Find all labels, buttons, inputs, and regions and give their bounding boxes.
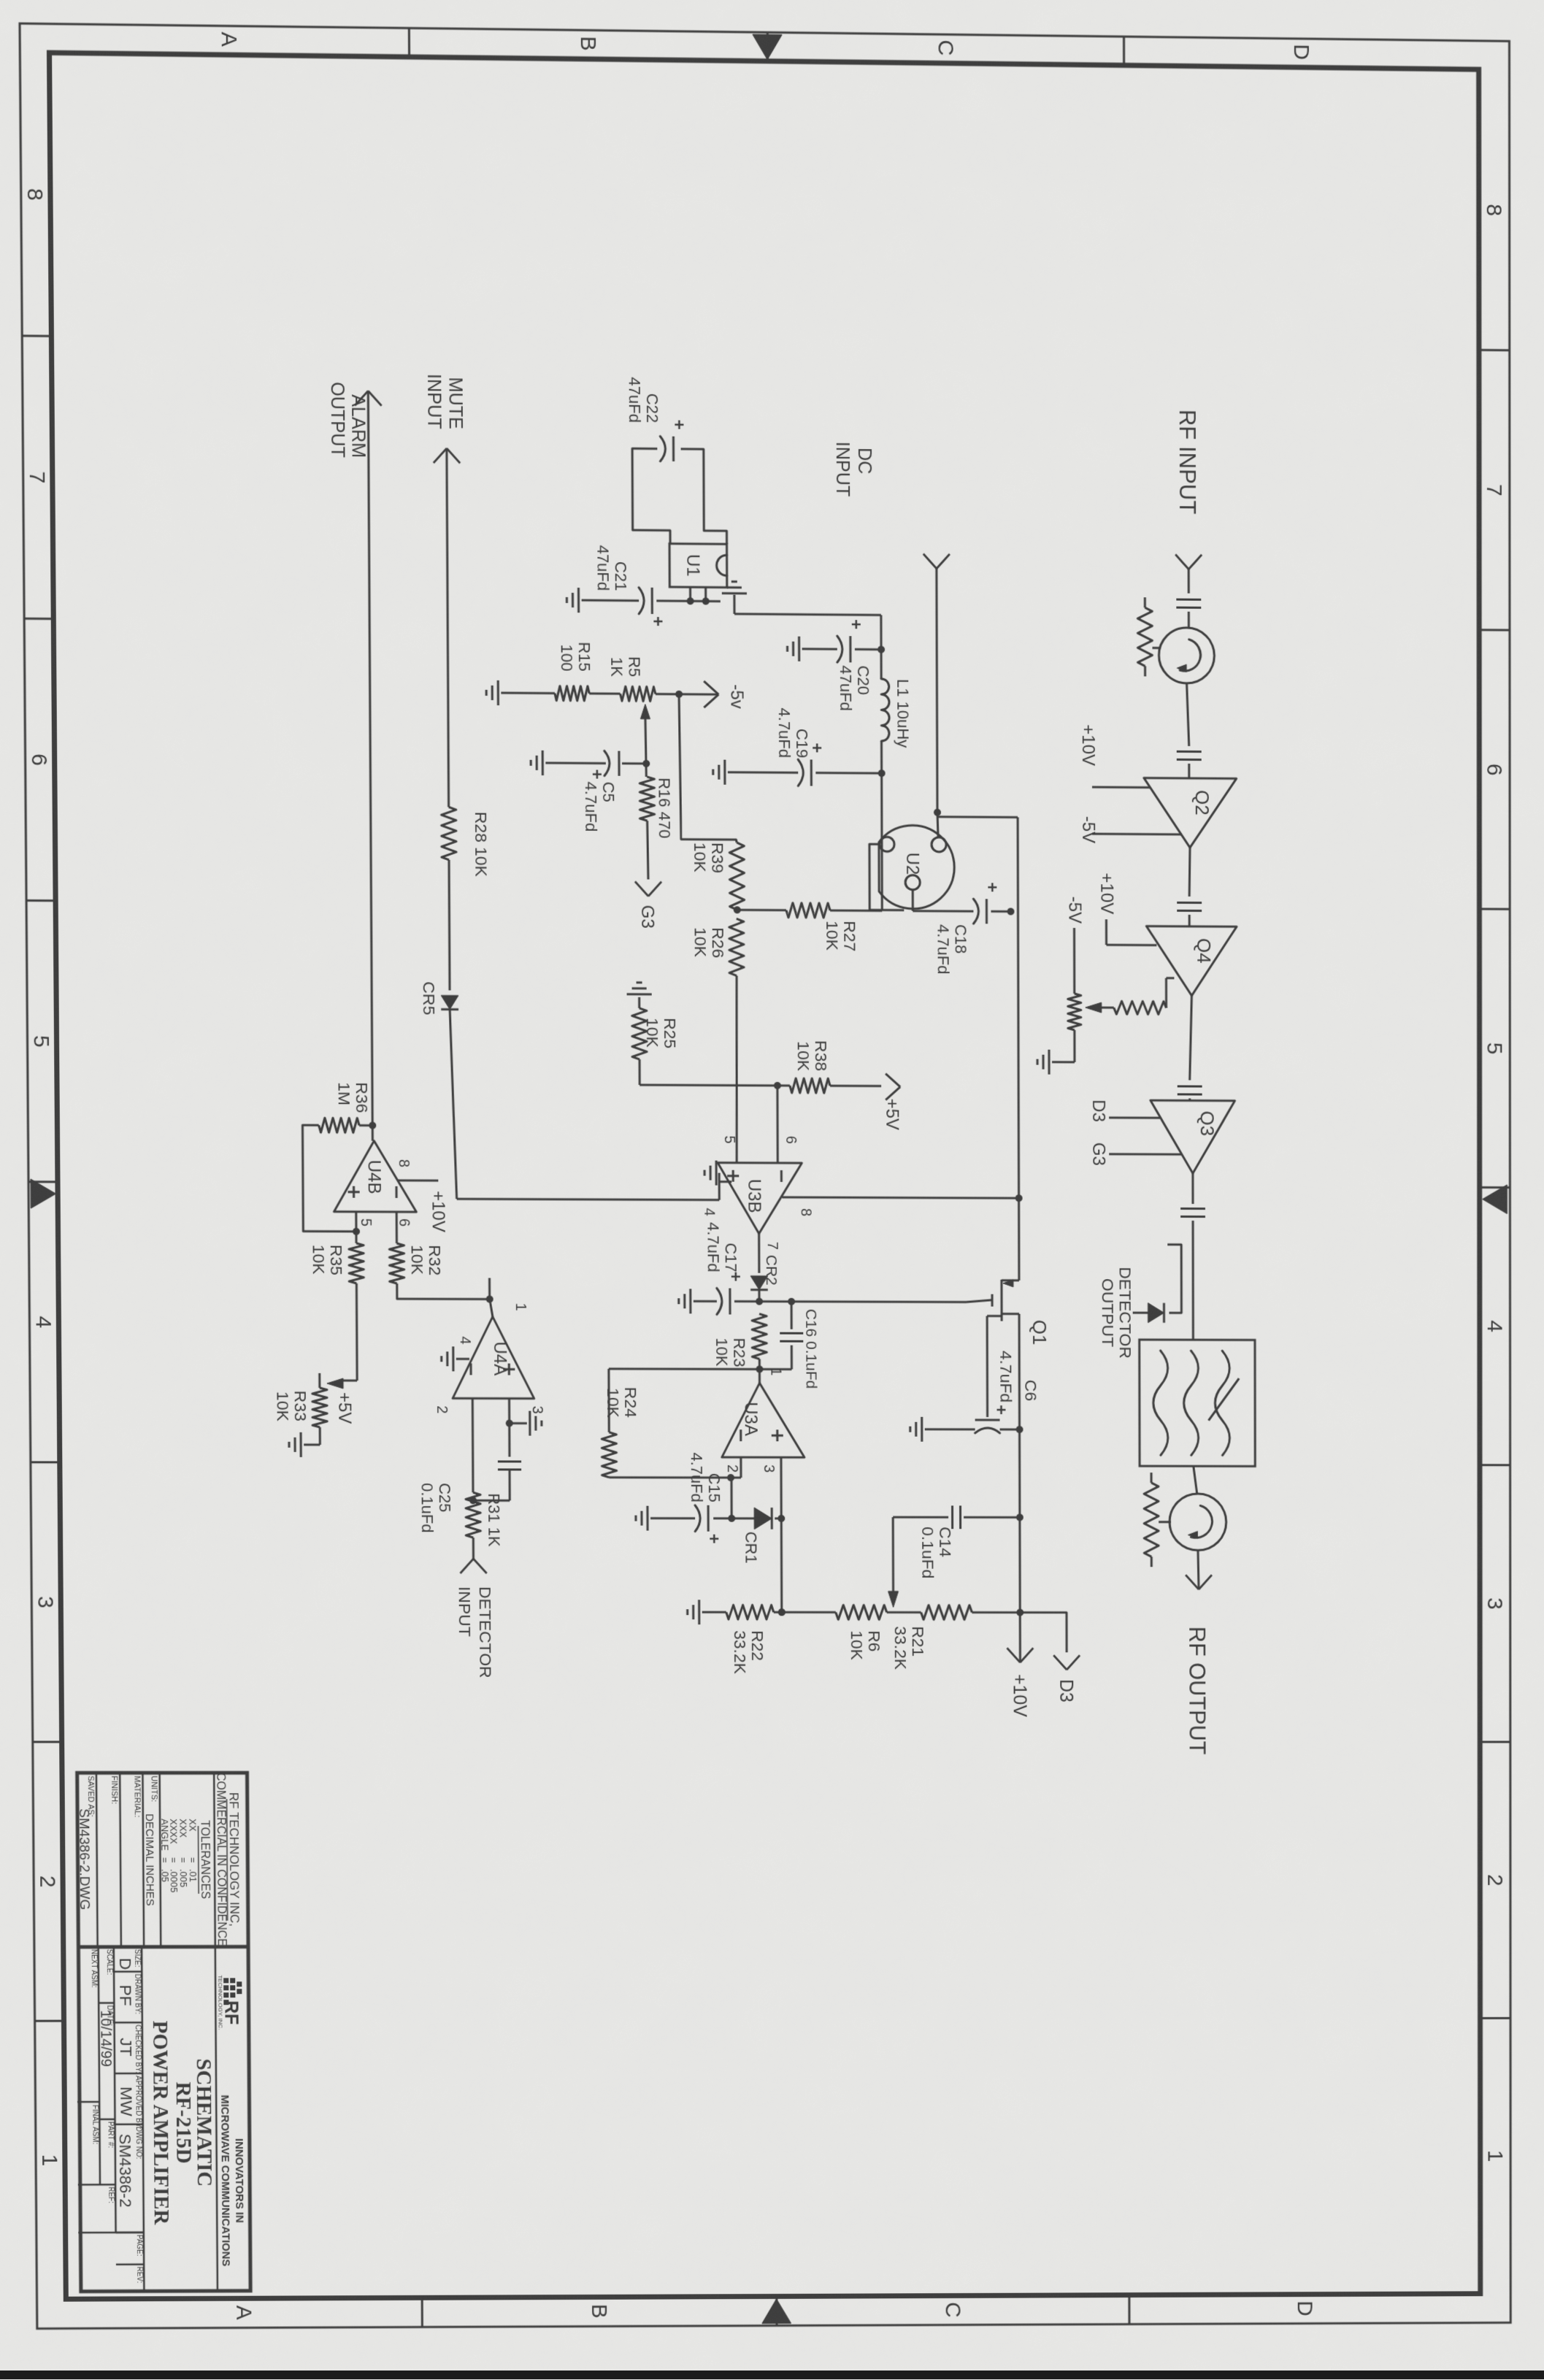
svg-text:5: 5	[29, 1035, 53, 1048]
svg-text:R24: R24	[621, 1387, 640, 1418]
ground below C19	[723, 760, 726, 785]
alarm output arrow	[368, 391, 381, 405]
svg-text:4: 4	[31, 1316, 55, 1329]
svg-text:3: 3	[33, 1596, 57, 1608]
svg-text:10K: 10K	[273, 1391, 292, 1422]
svg-text:10K: 10K	[604, 1388, 623, 1418]
svg-text:A: A	[217, 31, 241, 47]
feedback wire to U3A output node	[607, 1369, 610, 1432]
svg-text:OUTPUT: OUTPUT	[327, 382, 348, 458]
svg-text:C: C	[941, 2302, 965, 2318]
svg-text:-5V: -5V	[1078, 816, 1098, 844]
svg-text:C25: C25	[436, 1483, 454, 1512]
svg-text:7: 7	[1482, 484, 1506, 496]
DC riser to +10V rail	[938, 815, 1018, 818]
U2 lower pin loop	[869, 844, 904, 910]
svg-text:+10V: +10V	[1078, 724, 1098, 766]
svg-text:+5V: +5V	[334, 1392, 354, 1424]
svg-text:D3: D3	[1056, 1679, 1076, 1703]
CR1 bus vertical	[775, 1517, 781, 1519]
svg-text:+10V: +10V	[1010, 1674, 1030, 1717]
U4A output wire	[490, 1300, 493, 1317]
svg-text:DETECTOR: DETECTOR	[1116, 1267, 1135, 1359]
feedback junction on output	[369, 1122, 376, 1129]
svg-text:D3: D3	[1088, 1099, 1108, 1122]
filter slash	[1208, 1378, 1239, 1421]
alarm output wire	[368, 391, 372, 1140]
resistor R26	[729, 918, 744, 975]
directional coupler line	[1167, 1245, 1181, 1313]
U3B output wire	[758, 1234, 760, 1273]
svg-text:MW: MW	[117, 2087, 136, 2116]
wire R32 to U4A output	[397, 1283, 490, 1299]
resistor R32	[389, 1243, 404, 1283]
svg-text:MATERIAL:: MATERIAL:	[132, 1776, 141, 1817]
circulator 2	[1169, 1494, 1226, 1551]
svg-text:D: D	[1289, 44, 1313, 60]
R5 wiper arrow and line	[640, 705, 650, 719]
svg-text:RF INPUT: RF INPUT	[1175, 410, 1200, 515]
svg-text:10K: 10K	[310, 1245, 329, 1275]
svg-text:DWG NO:: DWG NO:	[134, 2127, 142, 2160]
capacitor C5	[642, 760, 650, 767]
U1 right pins to bus	[704, 587, 707, 601]
potentiometer R33	[312, 1388, 327, 1427]
capacitor C-in4	[1178, 1085, 1202, 1087]
transistor U2 (can)	[879, 825, 955, 909]
svg-text:R5: R5	[625, 656, 643, 677]
svg-text:D: D	[116, 1958, 135, 1970]
voltage regulator U1	[669, 544, 727, 588]
resistor R39	[729, 842, 744, 910]
svg-text:4.7uFd: 4.7uFd	[775, 707, 794, 758]
ground left of R25	[638, 997, 640, 1008]
wire to G3 arrow	[648, 821, 648, 879]
svg-text:8: 8	[798, 1208, 814, 1216]
svg-text:6: 6	[396, 1218, 412, 1227]
svg-text:R21: R21	[909, 1626, 928, 1657]
svg-text:2: 2	[434, 1405, 450, 1413]
wire	[589, 692, 620, 694]
svg-text:REF:: REF:	[107, 2187, 115, 2203]
svg-text:47uFd: 47uFd	[837, 665, 855, 711]
wire	[1192, 1221, 1194, 1340]
mute wire	[447, 448, 449, 807]
ground at Q4 pot	[1048, 1050, 1050, 1075]
svg-text:2: 2	[1483, 1874, 1506, 1886]
svg-text:6: 6	[1482, 764, 1506, 776]
svg-text:5: 5	[1483, 1043, 1507, 1055]
ground below C21	[577, 588, 580, 613]
diode CR2	[750, 1276, 768, 1290]
centering marks	[1483, 1185, 1507, 1214]
svg-text:L1 10uHy: L1 10uHy	[894, 679, 912, 748]
RF logo	[230, 1978, 235, 1983]
svg-text:4: 4	[1483, 1320, 1507, 1332]
diode CR1	[754, 1508, 772, 1529]
svg-text:.01: .01	[188, 1869, 199, 1882]
+5V arrow above R38	[830, 1085, 881, 1087]
svg-text:10K: 10K	[691, 842, 710, 873]
svg-text:=: =	[188, 1857, 199, 1863]
svg-text:UNITS:: UNITS:	[150, 1776, 158, 1802]
svg-text:8: 8	[1482, 204, 1506, 216]
svg-text:10K: 10K	[823, 921, 842, 951]
wire to ground	[501, 692, 555, 695]
svg-text:4.7uFd: 4.7uFd	[996, 1351, 1015, 1402]
svg-text:U3B: U3B	[744, 1179, 764, 1213]
capacitor C25	[498, 1460, 521, 1462]
svg-text:R31 1K: R31 1K	[485, 1493, 503, 1546]
wire	[1194, 1466, 1197, 1494]
svg-text:G3: G3	[637, 905, 657, 929]
R24 feedback leg	[610, 1476, 731, 1478]
svg-text:3: 3	[529, 1406, 545, 1414]
capacitor C-out1	[1180, 1208, 1205, 1210]
resistor R22	[726, 1605, 774, 1619]
D3 arrow and label	[1067, 1655, 1080, 1670]
svg-text:2: 2	[35, 1876, 59, 1888]
svg-text:4: 4	[457, 1336, 473, 1344]
wire	[1189, 996, 1191, 1080]
svg-text:TECHNOLOGY, INC.: TECHNOLOGY, INC.	[217, 1975, 223, 2030]
svg-text:10K: 10K	[848, 1630, 867, 1660]
svg-text:C6: C6	[1021, 1380, 1040, 1401]
svg-text:10K: 10K	[713, 1337, 731, 1366]
svg-text:R32: R32	[426, 1245, 445, 1275]
svg-text:1: 1	[37, 2154, 61, 2167]
op-amp U3A (points left)	[721, 1383, 804, 1457]
svg-text:G3: G3	[1088, 1143, 1108, 1166]
svg-text:2: 2	[724, 1465, 740, 1473]
svg-text:SM4386-2: SM4386-2	[116, 2134, 135, 2208]
wire	[1187, 683, 1189, 746]
svg-text:POWER AMPLIFIER: POWER AMPLIFIER	[148, 2021, 173, 2226]
svg-text:C19: C19	[793, 729, 811, 759]
resistor R31	[466, 1492, 480, 1538]
C6 network	[986, 1316, 988, 1417]
svg-text:R38: R38	[812, 1040, 831, 1071]
svg-text:0.1uFd: 0.1uFd	[418, 1483, 437, 1532]
wiper arrow onto R6	[888, 1592, 899, 1608]
svg-text:C16 0.1uFd: C16 0.1uFd	[802, 1309, 819, 1389]
svg-text:C5: C5	[599, 782, 618, 802]
resistor R35	[349, 1243, 364, 1283]
capacitor C15	[707, 1505, 710, 1532]
op-amp U4B (points left)	[334, 1140, 416, 1212]
svg-text:1K: 1K	[607, 657, 626, 677]
svg-text:100: 100	[558, 645, 576, 672]
junction to D3 stub	[1016, 1609, 1023, 1616]
svg-text:INPUT: INPUT	[456, 1586, 475, 1637]
svg-text:Q2: Q2	[1191, 790, 1213, 815]
capacitor C-in2	[1177, 751, 1202, 753]
filter box	[1140, 1340, 1256, 1466]
svg-text:R6: R6	[865, 1630, 884, 1651]
svg-text:C14: C14	[936, 1527, 955, 1557]
svg-text:4.7uFd: 4.7uFd	[934, 924, 952, 975]
potentiometer at Q4	[1068, 994, 1081, 1030]
svg-text:4: 4	[701, 1208, 717, 1216]
amplifier Q4	[1146, 926, 1237, 997]
junction for C6 ground leg	[1016, 1426, 1023, 1433]
svg-text:10K: 10K	[643, 1018, 662, 1048]
U3B - input line	[776, 1086, 778, 1163]
svg-text:MICROWAVE COMMUNICATIONS: MICROWAVE COMMUNICATIONS	[218, 2095, 232, 2266]
svg-text:RF TECHNOLOGY INC,: RF TECHNOLOGY INC,	[226, 1792, 241, 1927]
potentiometer R5	[621, 686, 656, 701]
wire A right	[880, 741, 883, 910]
U3B pin4 ground + CR5 net riser	[719, 1181, 731, 1183]
svg-text:=: =	[178, 1857, 189, 1863]
svg-text:8: 8	[23, 188, 47, 201]
wire	[1188, 569, 1190, 594]
U4A pin4 ground	[469, 1362, 472, 1364]
svg-text:PART #:: PART #:	[106, 2122, 114, 2148]
svg-text:C18: C18	[952, 924, 970, 953]
riser to left ground	[734, 614, 881, 615]
wire A	[880, 615, 882, 678]
wire to R33 wiper	[356, 1283, 358, 1381]
junction C16 return	[756, 1365, 763, 1373]
resistor R15	[555, 686, 589, 701]
svg-text:6: 6	[27, 753, 51, 766]
svg-text:B: B	[587, 2304, 611, 2319]
svg-text:RF OUTPUT: RF OUTPUT	[1184, 1627, 1210, 1755]
svg-text:C: C	[934, 39, 958, 55]
detector diode CR-det	[1148, 1303, 1164, 1323]
svg-text:1: 1	[767, 1367, 783, 1375]
title block left rows	[214, 1773, 215, 1946]
svg-text:10/14/99: 10/14/99	[97, 2010, 114, 2067]
svg-text:XXX: XXX	[177, 1819, 188, 1838]
R21 top wire	[972, 1611, 1020, 1613]
U1 pin bus with C21 to ground	[656, 599, 721, 602]
U4A - input line	[472, 1398, 475, 1492]
capacitor C21	[651, 588, 653, 614]
title block outline	[77, 1773, 250, 2291]
resistor R36 feedback	[359, 1124, 372, 1126]
U4B + input line	[355, 1212, 357, 1243]
U4B - input line	[396, 1212, 398, 1243]
svg-text:JT: JT	[117, 2038, 136, 2056]
wire to detector input arrow	[472, 1538, 475, 1559]
svg-text:+10V: +10V	[1096, 873, 1116, 915]
svg-text:U1: U1	[683, 554, 702, 577]
inductor L1	[881, 679, 889, 741]
svg-text:OUTPUT: OUTPUT	[1099, 1278, 1118, 1347]
+10V drain rail	[1018, 817, 1019, 1280]
svg-text:Q4: Q4	[1193, 938, 1215, 964]
RF output arrow	[1199, 1575, 1212, 1589]
svg-text:47uFd: 47uFd	[626, 377, 644, 423]
svg-text:R33: R33	[291, 1391, 310, 1421]
ground below C6	[921, 1417, 923, 1442]
svg-text:-5v: -5v	[726, 684, 746, 709]
U4B pin8 +10V stub	[398, 1179, 438, 1181]
ground right of R33	[319, 1427, 321, 1445]
C20 branch	[855, 648, 881, 650]
svg-text:Q1: Q1	[1029, 1320, 1051, 1346]
junction R39/R26	[734, 906, 741, 913]
svg-text:0.1uFd: 0.1uFd	[918, 1527, 937, 1578]
C22 loop around U1	[681, 449, 727, 544]
Q4 gate resistor with wiper arrow	[1166, 977, 1174, 979]
svg-text:INPUT: INPUT	[832, 442, 853, 497]
transistor Q1 (JFET)	[1000, 1280, 1002, 1321]
wire	[1191, 1173, 1194, 1204]
R25 to - input	[640, 1084, 777, 1087]
svg-text:CR1: CR1	[742, 1532, 760, 1564]
wire	[448, 860, 451, 991]
resistor R28	[442, 807, 457, 859]
junction U3A+ tap	[778, 1608, 786, 1616]
svg-text:DC: DC	[854, 448, 875, 475]
svg-text:=: =	[159, 1857, 170, 1863]
svg-text:COMMERCIAL IN CONFIDENCE: COMMERCIAL IN CONFIDENCE	[214, 1773, 228, 1946]
resistor R23	[752, 1314, 767, 1359]
svg-text:1: 1	[512, 1302, 529, 1310]
capacitor C22	[672, 437, 675, 461]
svg-text:INPUT: INPUT	[423, 374, 445, 429]
ground below C17	[689, 1289, 691, 1313]
wire	[1188, 1098, 1191, 1100]
capacitor C-in1	[1176, 599, 1201, 601]
svg-text:CR5: CR5	[420, 981, 439, 1015]
svg-text:4.7uFd: 4.7uFd	[582, 781, 600, 832]
svg-text:C21: C21	[612, 561, 630, 591]
svg-text:R25: R25	[661, 1018, 680, 1048]
svg-text:7: 7	[764, 1242, 780, 1250]
wire	[887, 1611, 921, 1613]
+ line jog down to -5v chain	[679, 694, 737, 842]
svg-text:3: 3	[1483, 1597, 1506, 1610]
inverted ground above + line	[510, 1422, 527, 1424]
junction rail to C14 branch	[1016, 1513, 1023, 1521]
wire	[656, 693, 718, 696]
svg-text:33.2K: 33.2K	[731, 1630, 750, 1674]
svg-text:8: 8	[396, 1159, 412, 1167]
svg-text:ANGLE: ANGLE	[159, 1819, 170, 1851]
C16 parallel branch	[788, 1298, 795, 1305]
ground below C20	[798, 637, 800, 661]
svg-text:U2: U2	[902, 853, 922, 875]
svg-text:R36: R36	[353, 1082, 372, 1113]
capacitor C-in3	[1177, 902, 1202, 904]
zone ticks and labels	[1479, 349, 1510, 351]
svg-text:DECIMAL INCHES: DECIMAL INCHES	[143, 1813, 156, 1906]
svg-text:CR2: CR2	[763, 1255, 780, 1286]
svg-text:SM4386-2.DWG: SM4386-2.DWG	[76, 1808, 92, 1910]
svg-text:+10V: +10V	[428, 1191, 448, 1232]
svg-text:4.7uFd: 4.7uFd	[704, 1222, 722, 1272]
wire to ground	[702, 1611, 726, 1613]
svg-text:7: 7	[25, 471, 49, 483]
svg-text:1M: 1M	[335, 1082, 354, 1105]
svg-text:DETECTOR: DETECTOR	[476, 1586, 496, 1678]
svg-text:+5V: +5V	[882, 1099, 902, 1130]
op-amp U3B	[718, 1163, 802, 1234]
DC input arrow and wire	[937, 554, 950, 569]
svg-text:33.2K: 33.2K	[891, 1626, 910, 1670]
wire	[1189, 848, 1190, 897]
svg-text:U4B: U4B	[364, 1160, 383, 1194]
svg-text:Q3: Q3	[1197, 1110, 1218, 1136]
svg-text:RF: RF	[220, 2000, 241, 2024]
capacitor C18	[986, 899, 988, 924]
row A cell dividers	[114, 1970, 142, 1973]
+10V arrow and label	[1020, 1648, 1033, 1662]
wire to U3B pin4 area	[450, 1010, 456, 1199]
svg-text:R27: R27	[840, 921, 859, 951]
capacitor C17 on gate bus	[734, 1300, 759, 1302]
svg-text:3: 3	[761, 1465, 777, 1473]
svg-text:R16 470: R16 470	[655, 778, 673, 839]
svg-text:R22: R22	[748, 1630, 767, 1661]
svg-text:R15: R15	[575, 642, 594, 672]
svg-text:FINAL ASM:: FINAL ASM:	[91, 2105, 99, 2144]
svg-text:R23: R23	[730, 1337, 748, 1367]
U2 right pin to C18	[912, 890, 914, 911]
svg-text:5: 5	[721, 1136, 737, 1144]
R27 riser to wire A	[786, 903, 830, 918]
C14 branch down to R6 wiper	[964, 1516, 1020, 1519]
op-amp U4A (points left)	[453, 1316, 534, 1398]
svg-text:R35: R35	[327, 1245, 346, 1275]
C19 branch	[815, 772, 881, 775]
ground below C15	[646, 1506, 648, 1531]
svg-text:U4A: U4A	[490, 1342, 510, 1377]
svg-text:INNOVATORS IN: INNOVATORS IN	[233, 2138, 246, 2223]
resistor R21	[921, 1605, 972, 1620]
+5V stub left of R33	[318, 1373, 320, 1388]
svg-text:XX: XX	[187, 1819, 198, 1832]
svg-text:NEXT ASM:: NEXT ASM:	[90, 1949, 98, 1988]
svg-text:ALARM: ALARM	[347, 394, 369, 458]
Q3 D3 bias stub	[1109, 1116, 1160, 1118]
gate bus down to U3B output node	[759, 1300, 966, 1303]
diode CR5	[441, 995, 458, 1009]
svg-text:D: D	[1293, 2300, 1316, 2316]
svg-text:10K: 10K	[408, 1245, 427, 1275]
wire	[1188, 612, 1190, 628]
U3A + input line to R6/R22 tap	[780, 1457, 783, 1612]
svg-text:10K: 10K	[794, 1041, 813, 1072]
wire	[1198, 1551, 1199, 1590]
U4A + input line	[508, 1399, 510, 1457]
U2 top pin wire	[937, 813, 938, 837]
svg-text:C22: C22	[643, 394, 661, 423]
svg-text:SCHEMATIC: SCHEMATIC	[192, 2059, 216, 2187]
U3B pin8 wire to +10V rail	[783, 1197, 1019, 1198]
wire	[1188, 915, 1191, 926]
svg-text:FINISH:: FINISH:	[110, 1776, 118, 1804]
ground below C5	[542, 751, 544, 775]
svg-text:5: 5	[358, 1218, 374, 1227]
svg-text:R39: R39	[708, 842, 727, 873]
RF input arrow	[1188, 555, 1202, 569]
circulator 1	[1159, 627, 1214, 683]
svg-text:PF: PF	[116, 1985, 135, 2006]
svg-text:TOLERANCES: TOLERANCES	[198, 1820, 212, 1899]
svg-text:1: 1	[1483, 2150, 1507, 2162]
svg-text:A: A	[232, 2306, 256, 2321]
svg-text:RF-215D: RF-215D	[172, 2081, 196, 2163]
wire	[1188, 764, 1190, 778]
terminated resistor on circulator 2	[1159, 1521, 1171, 1523]
resistor R16	[640, 777, 654, 821]
right column rows	[215, 1947, 218, 2291]
